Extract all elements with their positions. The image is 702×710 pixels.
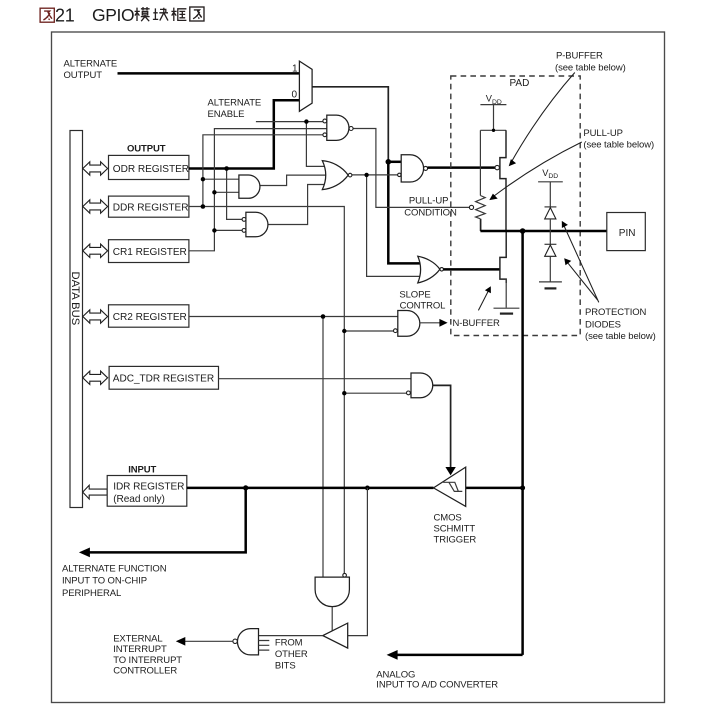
svg-text:PAD: PAD bbox=[510, 78, 530, 89]
wire NAND2 lower input bbox=[214, 229, 242, 231]
wire CR1 net: up to top NAND middle input bbox=[189, 129, 328, 251]
svg-text:SLOPE: SLOPE bbox=[399, 290, 430, 301]
svg-text:INPUT TO A/D CONVERTER: INPUT TO A/D CONVERTER bbox=[376, 680, 498, 691]
PMOS gate bubble bbox=[495, 165, 499, 169]
P-buffer NAND bbox=[401, 155, 423, 182]
svg-text:PIN: PIN bbox=[619, 228, 636, 239]
bus arrow IDR (read only) bbox=[83, 485, 108, 499]
schmitt to pad vertical (thick) bbox=[466, 487, 523, 490]
wire AND1 output to NOR input 2 bbox=[260, 175, 332, 185]
svg-text:(see table below): (see table below) bbox=[555, 63, 626, 74]
DDR register box bbox=[109, 196, 189, 217]
svg-text:OUTPUT: OUTPUT bbox=[127, 144, 166, 155]
svg-text:ALTERNATE: ALTERNATE bbox=[64, 58, 118, 69]
protection diode lower bbox=[545, 243, 557, 245]
pad node line (thick) bbox=[480, 230, 606, 233]
svg-text:(see table below): (see table below) bbox=[583, 140, 654, 151]
wire ADC_TDR to ADC AND bbox=[219, 378, 413, 380]
svg-text:DATA BUS: DATA BUS bbox=[69, 272, 81, 326]
CR1 register box bbox=[109, 240, 189, 263]
IDR register box bbox=[107, 476, 187, 507]
schmitt hysteresis symbol bbox=[443, 482, 462, 491]
bottom AND output bbox=[331, 607, 333, 631]
svg-text:CONTROL: CONTROL bbox=[400, 301, 446, 312]
junction dot ODR/NAND2 bbox=[224, 166, 229, 171]
wire slope AND lower input bbox=[344, 330, 394, 332]
junction dot IDR line / interrupt bbox=[365, 486, 370, 491]
PMOS transistor P-buffer bbox=[500, 130, 506, 231]
PIN box bbox=[607, 213, 646, 251]
pad vertical down (thick) bbox=[521, 231, 524, 655]
interrupt output arrow bbox=[185, 640, 233, 642]
svg-text:DD: DD bbox=[548, 173, 558, 180]
svg-text:PERIPHERAL: PERIPHERAL bbox=[62, 588, 121, 599]
wire NAND2 output to NOR input 3 bbox=[268, 185, 334, 225]
protection diode upper bbox=[545, 206, 557, 208]
ODR register box bbox=[109, 155, 189, 179]
svg-text:BITS: BITS bbox=[275, 661, 296, 672]
svg-text:1: 1 bbox=[292, 63, 298, 74]
svg-text:CR1 REGISTER: CR1 REGISTER bbox=[113, 247, 187, 258]
NAND gate A2 inverted-input (ODR,CR1) bbox=[246, 212, 268, 237]
svg-text:(see table below): (see table below) bbox=[585, 331, 656, 342]
NMOS ground bbox=[494, 307, 520, 309]
svg-text:CR2 REGISTER: CR2 REGISTER bbox=[113, 312, 187, 323]
junction dot ADC tap bbox=[342, 391, 346, 395]
svg-text:FROM: FROM bbox=[275, 638, 303, 649]
wire AND1 upper input bbox=[203, 178, 240, 180]
svg-text:INPUT TO ON-CHIP: INPUT TO ON-CHIP bbox=[62, 576, 147, 587]
svg-text:P-BUFFER: P-BUFFER bbox=[556, 50, 603, 61]
svg-text:CMOS: CMOS bbox=[434, 512, 462, 523]
svg-text:DDR REGISTER: DDR REGISTER bbox=[113, 202, 189, 213]
interrupt tap down from schmitt line bbox=[348, 488, 368, 636]
svg-text:CONTROLLER: CONTROLLER bbox=[113, 666, 177, 677]
svg-text:TO INTERRUPT: TO INTERRUPT bbox=[113, 655, 182, 666]
wire P-NAND thick input stub bbox=[387, 161, 401, 164]
wire VDD to pull-up resistor bbox=[479, 130, 481, 195]
svg-text:ODR REGISTER: ODR REGISTER bbox=[113, 164, 189, 175]
mux trapezoid bbox=[299, 61, 312, 111]
wire CR2 down to interrupt AND bbox=[322, 317, 324, 578]
wire N-NOR output to NMOS gate (thick) bbox=[443, 268, 500, 271]
protection diodes annotation arrow 1 bbox=[564, 225, 599, 303]
junction dot NOR output bbox=[364, 173, 368, 177]
protection diodes annotation arrow 2 bbox=[567, 262, 598, 300]
wire mux vertical to N-buffer NOR (thick) bbox=[388, 160, 426, 263]
wire mux output to vertical bbox=[312, 87, 388, 162]
junction dot mux/P-NAND bbox=[386, 159, 392, 165]
wire DDR net: right then down to slope/ADC/interrupt gates bbox=[189, 207, 344, 574]
wire alt enable down to NOR input 1 bbox=[306, 122, 333, 167]
NOR gate (output driver select) bbox=[322, 161, 348, 190]
junction dot DDR/vert bbox=[201, 204, 206, 209]
bottom AND gate (CR2·DDRn) bbox=[315, 577, 349, 607]
data bus bar bbox=[70, 131, 83, 508]
wire AND1 lower input bbox=[214, 191, 240, 193]
VDD supply (diodes) bbox=[538, 182, 563, 207]
wire ADC AND lower input bbox=[344, 392, 407, 394]
wire alternate output (thick) bbox=[118, 72, 300, 75]
svg-text:ALTERNATE: ALTERNATE bbox=[208, 98, 262, 109]
pull-up annotation arrow bbox=[492, 142, 582, 198]
VDD split T bbox=[480, 129, 506, 131]
slope control AND bbox=[398, 311, 420, 337]
svg-text:INTERRUPT: INTERRUPT bbox=[113, 644, 167, 655]
svg-text:21: 21 bbox=[55, 5, 75, 25]
svg-text:ADC_TDR REGISTER: ADC_TDR REGISTER bbox=[113, 374, 214, 385]
pull-up condition bubble bbox=[469, 205, 473, 209]
CR2 register box bbox=[109, 305, 189, 327]
svg-text:IDR REGISTER: IDR REGISTER bbox=[113, 481, 184, 492]
IDR / schmitt line (thick) bbox=[187, 487, 434, 490]
svg-text:ALTERNATE FUNCTION: ALTERNATE FUNCTION bbox=[62, 564, 167, 575]
analog input arrow (thick) bbox=[397, 654, 523, 657]
svg-text:N-BUFFER: N-BUFFER bbox=[453, 318, 500, 329]
wire ODR to NAND2 upper input bbox=[227, 169, 243, 220]
ADC AND output to schmitt arrow bbox=[433, 385, 451, 467]
svg-text:DIODES: DIODES bbox=[585, 320, 621, 331]
P-buffer annotation arrow bbox=[511, 73, 575, 164]
junction dot pad node bbox=[520, 228, 526, 234]
svg-text:PULL-UP: PULL-UP bbox=[583, 128, 622, 139]
junction dot pad vertical / schmitt bbox=[520, 485, 525, 490]
svg-text:PULL-UP: PULL-UP bbox=[409, 195, 448, 206]
junction dot AND1 lower tap bbox=[212, 190, 216, 194]
CMOS schmitt trigger triangle bbox=[434, 467, 466, 506]
alternate function tap (thick, arrow left) bbox=[89, 488, 246, 553]
wire CR2 to slope AND bbox=[189, 316, 399, 318]
junction dot AND1 upper tap bbox=[201, 177, 205, 181]
svg-text:OTHER: OTHER bbox=[275, 649, 308, 660]
ADC_TDR register box bbox=[109, 366, 218, 389]
wire NOR output to P-NAND bbox=[352, 174, 398, 176]
buffer output to interrupt AND bbox=[259, 635, 323, 637]
junction dot CR2 bbox=[321, 314, 326, 319]
top NAND gate (pull-up condition) bbox=[327, 115, 349, 140]
svg-text:(Read only): (Read only) bbox=[113, 494, 165, 505]
wire DDR up to top NAND input 3 bbox=[203, 135, 323, 207]
bus arrow ODR bbox=[83, 162, 108, 175]
junction dot NAND2 lower tap bbox=[212, 228, 216, 232]
wire ODR to mux input 0 (thick) bbox=[189, 100, 300, 168]
resistor to pad node (thick) bbox=[480, 219, 482, 231]
ADC AND bbox=[411, 373, 433, 398]
figure label 图21 bbox=[40, 8, 54, 22]
from other bits stubs bbox=[259, 641, 270, 651]
buffer triangle (to interrupt) bbox=[323, 623, 348, 648]
svg-text:INPUT: INPUT bbox=[128, 465, 156, 476]
slope AND output arrow bbox=[420, 322, 441, 324]
AND gate A1 (DDR·CR1) bbox=[239, 175, 260, 198]
svg-text:GPIO: GPIO bbox=[92, 5, 134, 25]
svg-text:TRIGGER: TRIGGER bbox=[434, 535, 477, 546]
wire NOR junction down to N-NOR input 2 bbox=[367, 175, 426, 277]
bus arrow DDR bbox=[83, 200, 108, 213]
wire alternate enable bbox=[256, 121, 323, 123]
svg-text:DD: DD bbox=[492, 99, 502, 106]
svg-text:ENABLE: ENABLE bbox=[208, 109, 245, 120]
N-buffer NOR bbox=[418, 256, 440, 283]
junction dot alt enable bbox=[304, 119, 308, 123]
VDD supply (P-buffer) bbox=[480, 105, 506, 131]
bus arrow CR2 bbox=[83, 310, 108, 323]
interrupt AND gate (mirrored) bbox=[237, 629, 258, 655]
junction dot IDR line / alt function bbox=[243, 485, 248, 490]
N-buffer annotation arrow bbox=[478, 290, 489, 311]
svg-text:PROTECTION: PROTECTION bbox=[585, 307, 647, 318]
svg-text:EXTERNAL: EXTERNAL bbox=[113, 633, 162, 644]
bus arrow CR1 bbox=[83, 244, 108, 257]
wire top NAND output to pull-up condition bbox=[353, 129, 469, 208]
svg-text:0: 0 bbox=[292, 90, 298, 101]
pull-up resistor zigzag bbox=[476, 196, 486, 219]
NMOS transistor N-buffer bbox=[500, 231, 506, 283]
bus arrow ADC_TDR bbox=[83, 371, 108, 384]
svg-text:SCHMITT: SCHMITT bbox=[434, 523, 476, 534]
wire P-NAND output to PMOS gate (thick) bbox=[428, 166, 496, 169]
svg-text:OUTPUT: OUTPUT bbox=[64, 70, 103, 81]
diode ground bbox=[539, 281, 562, 283]
PAD dashed box bbox=[451, 76, 580, 336]
svg-text:CONDITION: CONDITION bbox=[404, 207, 457, 218]
junction dot slope tap bbox=[342, 329, 346, 333]
